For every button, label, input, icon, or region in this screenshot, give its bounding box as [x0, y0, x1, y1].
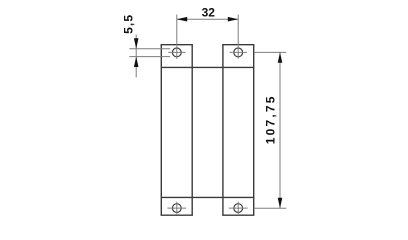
svg-text:32: 32 [202, 6, 216, 20]
dimension 107,75: extension lines [254, 52, 287, 208]
svg-text:5,5: 5,5 [122, 14, 136, 34]
part outline (H-shaped body, front view) [161, 45, 255, 216]
dimension 107,75: upper arrowhead [278, 52, 283, 62]
dimension 5,5: extension lines [129, 49, 170, 57]
wire inner vertical left [191, 45, 193, 216]
wire left outer edge [160, 45, 162, 216]
dimension 32: dimension line [177, 18, 238, 20]
hole bottom-left [172, 204, 181, 213]
wire bottom edge left tab [161, 214, 193, 216]
dimension 5,5: dimension line [135, 35, 137, 78]
wire right outer edge [253, 45, 255, 216]
centerline cross top-right hole [230, 46, 247, 59]
wire bottom edge right tab [222, 214, 254, 216]
wire upper horizontal rib [161, 66, 253, 68]
dimension 32: extension lines [177, 15, 238, 45]
centerline cross top-left hole [168, 46, 185, 59]
wire top edge right tab [222, 44, 254, 46]
dimension 32: right arrowhead [228, 17, 238, 22]
dimension 5,5: upper arrowhead [134, 38, 139, 48]
dimension 107,75: lower arrowhead [278, 198, 283, 208]
dimension 107,75: dimension line [279, 52, 281, 208]
hole top-left [172, 48, 181, 57]
centerline cross bottom-right hole [229, 202, 248, 214]
hole bottom-right [234, 204, 243, 213]
hole top-right [234, 48, 243, 57]
dimension 32: left arrowhead [177, 17, 187, 22]
svg-text:107,75: 107,75 [264, 94, 278, 144]
wire top edge left tab [161, 44, 193, 46]
dimension 5,5: lower arrowhead [134, 57, 139, 67]
centerline cross bottom-left hole [167, 202, 186, 214]
wire inner vertical right [222, 45, 224, 216]
wire lower horizontal rib [161, 196, 253, 198]
